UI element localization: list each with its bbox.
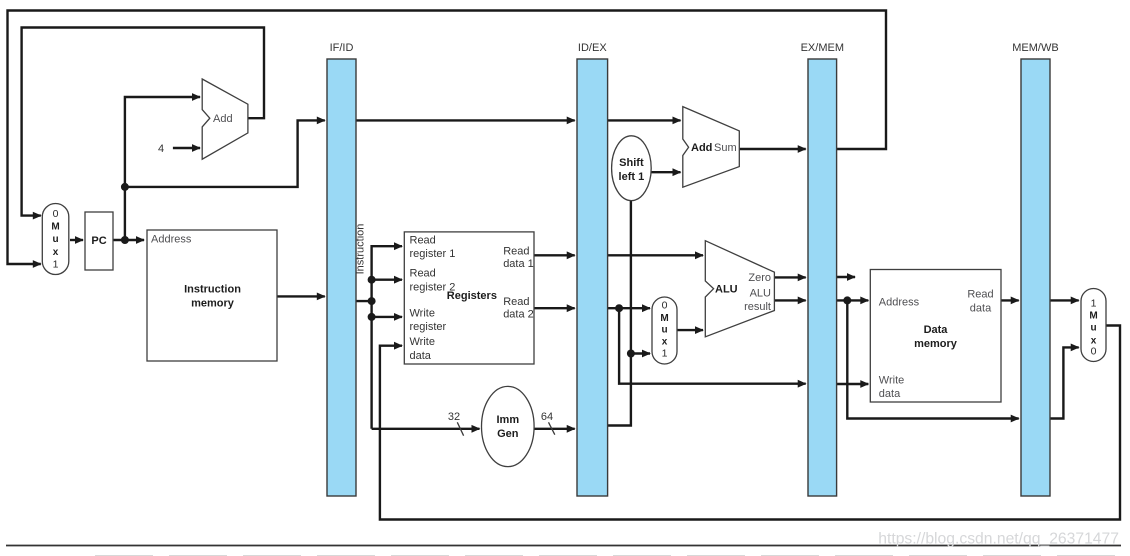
svg-text:Read: Read	[410, 268, 436, 280]
svg-text:u: u	[1090, 323, 1096, 334]
svg-text:u: u	[52, 234, 58, 245]
svg-text:u: u	[661, 325, 667, 336]
svg-text:1: 1	[53, 258, 59, 270]
svg-text:0: 0	[53, 208, 59, 220]
svg-text:32: 32	[448, 411, 460, 423]
svg-text:Read: Read	[967, 289, 993, 301]
svg-text:Data: Data	[924, 324, 949, 336]
svg-text:IF/ID: IF/ID	[330, 42, 354, 54]
svg-text:ALU: ALU	[715, 284, 738, 296]
svg-text:memory: memory	[914, 338, 958, 350]
svg-text:https://blog.csdn.net/qq_26371: https://blog.csdn.net/qq_26371477	[878, 531, 1119, 548]
svg-text:x: x	[662, 337, 668, 348]
svg-text:Add: Add	[213, 113, 233, 125]
svg-text:Read: Read	[503, 246, 529, 258]
svg-text:Read: Read	[503, 296, 529, 308]
svg-text:M: M	[51, 222, 59, 233]
svg-text:x: x	[53, 247, 59, 258]
svg-text:M: M	[660, 313, 668, 324]
svg-text:M: M	[1089, 311, 1097, 322]
svg-text:Imm: Imm	[496, 414, 519, 426]
svg-text:0: 0	[1091, 346, 1097, 358]
svg-text:Write: Write	[879, 374, 904, 386]
svg-text:64: 64	[541, 411, 553, 423]
svg-text:ALU: ALU	[750, 288, 771, 300]
svg-text:Write: Write	[410, 308, 435, 320]
svg-text:register: register	[410, 321, 447, 333]
svg-text:Address: Address	[151, 234, 192, 246]
svg-text:0: 0	[662, 300, 668, 312]
svg-text:EX/MEM: EX/MEM	[801, 42, 844, 54]
svg-text:register 1: register 1	[410, 248, 456, 260]
svg-text:1: 1	[1091, 298, 1097, 310]
svg-text:left 1: left 1	[619, 171, 645, 183]
svg-text:Registers: Registers	[447, 290, 497, 302]
svg-text:data 1: data 1	[503, 258, 534, 270]
svg-text:Sum: Sum	[714, 142, 737, 154]
svg-text:4: 4	[158, 143, 164, 155]
svg-text:Instruction: Instruction	[184, 283, 241, 295]
svg-text:ID/EX: ID/EX	[578, 42, 607, 54]
svg-text:MEM/WB: MEM/WB	[1012, 42, 1058, 54]
svg-text:Address: Address	[879, 296, 920, 308]
svg-text:Instruction: Instruction	[355, 224, 367, 275]
svg-text:data 2: data 2	[503, 309, 534, 321]
svg-text:Add: Add	[691, 142, 712, 154]
svg-text:1: 1	[662, 348, 668, 360]
svg-text:result: result	[744, 301, 771, 313]
svg-text:data: data	[879, 388, 901, 400]
svg-text:PC: PC	[91, 235, 106, 247]
svg-text:Write: Write	[410, 336, 435, 348]
svg-text:Zero: Zero	[748, 272, 771, 284]
svg-text:Read: Read	[410, 235, 436, 247]
svg-text:data: data	[970, 303, 992, 315]
svg-text:data: data	[410, 350, 432, 362]
svg-text:Gen: Gen	[497, 428, 519, 440]
svg-text:memory: memory	[191, 297, 235, 309]
svg-text:Shift: Shift	[619, 157, 644, 169]
